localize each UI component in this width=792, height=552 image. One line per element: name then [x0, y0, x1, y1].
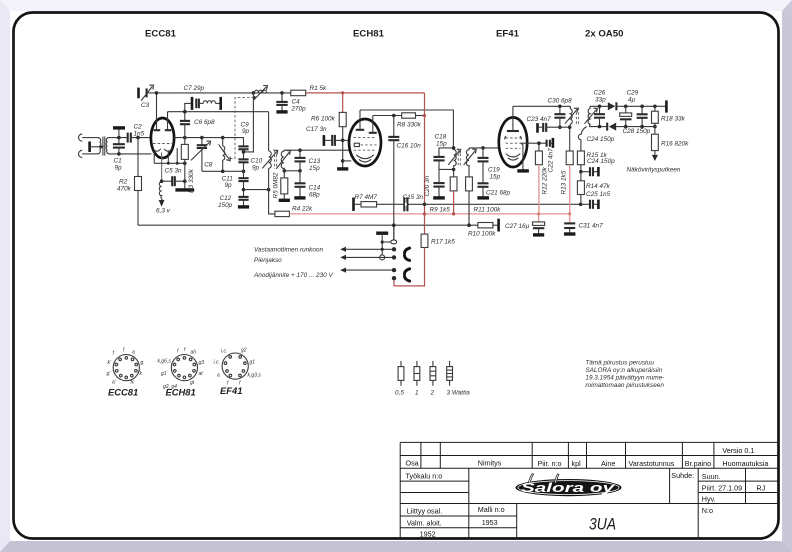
- svg-text:Piir. n:o: Piir. n:o: [538, 459, 562, 468]
- capacitor C11: [238, 177, 248, 179]
- svg-text:470k: 470k: [117, 186, 132, 193]
- oscillator anode line: [168, 111, 269, 113]
- svg-text:Br.paino: Br.paino: [685, 459, 711, 468]
- capacitor C14: [299, 171, 301, 184]
- svg-text:15p: 15p: [490, 174, 501, 181]
- svg-text:C13: C13: [309, 158, 321, 165]
- svg-text:Malli n:o: Malli n:o: [478, 505, 505, 514]
- ECH81 grids: [354, 136, 377, 138]
- svg-text:19.3.1954 päivättyyn nume-: 19.3.1954 päivättyyn nume-: [585, 375, 664, 382]
- svg-text:C18: C18: [435, 134, 447, 141]
- ground C20: [433, 196, 445, 199]
- ECH81 cathode wire: [343, 160, 352, 162]
- svg-text:R11 100k: R11 100k: [474, 206, 502, 213]
- svg-text:R17 1k5: R17 1k5: [431, 239, 455, 246]
- svg-text:R7 4M7: R7 4M7: [355, 194, 378, 201]
- svg-text:ECC81: ECC81: [145, 29, 177, 40]
- resistor R17: [421, 234, 428, 247]
- svg-text:at: at: [199, 371, 204, 377]
- wattage legend 3W: [447, 361, 471, 397]
- svg-text:C4: C4: [292, 99, 301, 106]
- resistor R13: [569, 127, 571, 151]
- svg-text:R9 1k5: R9 1k5: [430, 206, 451, 213]
- svg-text:C25 1n5: C25 1n5: [586, 191, 611, 198]
- frame top band: [0, 0, 792, 11]
- svg-text:R5 0M82: R5 0M82: [273, 172, 280, 198]
- antenna terminal top: [79, 134, 83, 141]
- svg-text:C15 3n: C15 3n: [403, 194, 424, 201]
- EF41 cathode lead: [521, 143, 523, 170]
- variable inductor L1 in rail: [254, 90, 266, 93]
- resistor R14: [580, 172, 582, 181]
- svg-text:2x OA50: 2x OA50: [585, 29, 623, 40]
- svg-text:g1: g1: [161, 371, 167, 377]
- wire C11-C12 junction to osc: [244, 189, 269, 191]
- node B+ in: [392, 276, 396, 280]
- diode D1 OA50: [608, 102, 615, 110]
- ground C27: [533, 233, 544, 236]
- svg-text:R18 33k: R18 33k: [661, 115, 686, 122]
- resistor R7: [352, 198, 355, 211]
- capacitor C12: [238, 196, 248, 198]
- chassis feed line: [346, 248, 395, 250]
- IF2 primary coil: [454, 148, 457, 167]
- IF3 core: [575, 108, 577, 127]
- svg-text:Huomautuksia: Huomautuksia: [722, 459, 768, 468]
- svg-text:9p: 9p: [115, 165, 123, 172]
- EF41 screen wire: [521, 142, 546, 144]
- capacitor C28: [641, 106, 643, 114]
- capacitor C26: [599, 106, 601, 114]
- wire C8 bottom: [202, 170, 244, 172]
- svg-text:Vastaanottimen runkoon: Vastaanottimen runkoon: [254, 247, 323, 254]
- ECC81 cathode 2: [164, 149, 171, 151]
- svg-text:3UA: 3UA: [589, 514, 616, 533]
- capacitor C16: [393, 116, 395, 137]
- node wire R5/C13: [284, 170, 300, 172]
- heater winding: [159, 182, 162, 202]
- svg-text:i.c.: i.c.: [221, 349, 227, 355]
- svg-text:C2: C2: [134, 124, 143, 131]
- capacitor C19: [482, 148, 484, 158]
- frame left band: [0, 0, 10, 552]
- ground ECH81 cathode: [337, 167, 348, 170]
- svg-text:C20 3n: C20 3n: [424, 175, 431, 196]
- capacitor C2: [127, 133, 129, 143]
- oscillator coil secondary: [281, 150, 284, 171]
- svg-text:270p: 270p: [291, 106, 307, 113]
- svg-text:C22 4n7: C22 4n7: [548, 148, 555, 173]
- wire secondary top to C2: [109, 137, 128, 139]
- svg-text:EF41: EF41: [220, 385, 242, 396]
- svg-text:9p: 9p: [225, 182, 233, 189]
- svg-text:C19: C19: [488, 167, 500, 174]
- connector prongs pair 2: [405, 269, 410, 274]
- svg-text:Valm. aloit.: Valm. aloit.: [407, 518, 442, 527]
- svg-text:C7 29p: C7 29p: [184, 85, 205, 92]
- anode voltage line: [346, 269, 395, 271]
- ECC81 bottom leads: [153, 152, 155, 164]
- svg-text:R2: R2: [119, 179, 128, 186]
- svg-text:ECH81: ECH81: [166, 387, 196, 398]
- svg-text:15p: 15p: [436, 141, 447, 148]
- svg-text:Pienjakso: Pienjakso: [254, 257, 282, 264]
- pinout ECC81: [113, 355, 139, 381]
- detector bottom line: [590, 124, 607, 127]
- capacitor C4: [281, 93, 283, 102]
- antenna transformer core: [102, 137, 104, 156]
- svg-text:gt: gt: [190, 380, 195, 386]
- ECH81 anode line to IF2: [360, 110, 453, 148]
- ground EF41 cathode: [517, 169, 529, 172]
- svg-text:kpl: kpl: [572, 459, 582, 468]
- red B+ vertical: [424, 93, 426, 234]
- svg-text:C3: C3: [141, 102, 150, 109]
- svg-text:C1: C1: [114, 158, 123, 165]
- svg-text:g2: g2: [241, 348, 247, 354]
- detector top line: [590, 105, 608, 107]
- svg-text:Salora oy: Salora oy: [521, 481, 616, 495]
- svg-text:a: a: [217, 373, 220, 379]
- resistor R16: [654, 127, 656, 135]
- svg-text:2: 2: [430, 390, 435, 397]
- IF2 core: [457, 149, 459, 168]
- variable capacitor C8: [201, 138, 203, 146]
- tube EF41: [499, 117, 527, 167]
- note text: [585, 360, 664, 390]
- svg-text:C23 4n7: C23 4n7: [527, 116, 552, 123]
- variable inductor L2: [222, 138, 224, 146]
- wattage legend 2W: [430, 361, 436, 397]
- capacitor C30: [559, 106, 561, 114]
- antenna transformer primary: [98, 138, 101, 154]
- svg-text:1952: 1952: [420, 529, 436, 538]
- ground C21: [477, 196, 489, 199]
- capacitor C23: [536, 123, 539, 133]
- svg-text:150p: 150p: [218, 202, 233, 209]
- LC trap C7: [185, 103, 191, 121]
- svg-text:SALORA oy:n alkuperäisiin: SALORA oy:n alkuperäisiin: [585, 367, 662, 374]
- svg-text:C26: C26: [594, 90, 606, 97]
- antenna terminal bottom: [79, 150, 83, 157]
- svg-text:N:o: N:o: [702, 506, 713, 515]
- svg-text:R16 820k: R16 820k: [661, 140, 689, 147]
- wire grid to stack: [174, 138, 244, 147]
- capacitor C22: [546, 140, 548, 147]
- ECC81 anode 1: [154, 129, 161, 131]
- wattage legend 0.5W: [395, 361, 404, 397]
- wire secondary bottom to tube: [109, 153, 152, 155]
- svg-text:R6 100k: R6 100k: [311, 116, 336, 123]
- capacitor C20: [438, 169, 440, 183]
- pienjakso line: [346, 256, 395, 258]
- resistor R10: [478, 223, 493, 228]
- ECC81 cathode 1: [153, 149, 160, 151]
- svg-text:C31 4n7: C31 4n7: [579, 222, 604, 229]
- svg-text:Nimitys: Nimitys: [478, 458, 502, 467]
- svg-text:6,3 v: 6,3 v: [156, 208, 171, 215]
- svg-text:Suun.: Suun.: [702, 472, 721, 481]
- svg-text:Aine: Aine: [601, 459, 615, 468]
- Salora oy logo: [516, 474, 622, 497]
- svg-text:33p: 33p: [595, 97, 606, 104]
- svg-text:C14: C14: [309, 185, 321, 192]
- svg-text:R12 220k: R12 220k: [541, 166, 548, 194]
- EF41 anode line: [513, 105, 570, 107]
- capacitor C29: [625, 106, 627, 113]
- svg-text:3 Wattia: 3 Wattia: [447, 390, 471, 397]
- svg-text:ah: ah: [191, 350, 197, 356]
- svg-text:Piirt. 27.1.09: Piirt. 27.1.09: [702, 483, 742, 492]
- EF41 grids: [505, 136, 506, 139]
- wattage legend 1W: [414, 361, 420, 397]
- resistor R6: [342, 93, 344, 113]
- svg-text:R1 5k: R1 5k: [310, 85, 327, 92]
- svg-text:C5 3n: C5 3n: [165, 167, 182, 174]
- diode D2 OA50: [606, 123, 608, 131]
- socket bushing: [391, 240, 397, 244]
- frame right band: [782, 0, 792, 552]
- svg-text:C30 6p8: C30 6p8: [548, 98, 573, 105]
- ground C14: [294, 196, 305, 199]
- svg-text:EF41: EF41: [496, 29, 520, 40]
- svg-text:Osa: Osa: [406, 458, 419, 467]
- ground C12: [238, 205, 249, 208]
- IF2 secondary coil: [466, 148, 469, 167]
- svg-text:roimattomaan piirustukseen: roimattomaan piirustukseen: [585, 382, 664, 389]
- svg-text:R13 1k5: R13 1k5: [560, 170, 567, 194]
- resistor R4: [269, 190, 275, 214]
- ground R3: [175, 188, 194, 191]
- svg-text:15p: 15p: [309, 165, 320, 172]
- trimmer C3: [137, 88, 140, 99]
- svg-text:R14 47k: R14 47k: [586, 183, 611, 190]
- capacitor C24: [580, 165, 582, 172]
- svg-text:Tämä piirustus perustuu: Tämä piirustus perustuu: [585, 360, 654, 367]
- svg-text:C24 150p: C24 150p: [587, 136, 615, 143]
- ground C31: [564, 232, 575, 235]
- svg-text:C29: C29: [627, 90, 639, 97]
- antenna transformer secondary: [106, 138, 109, 154]
- resistor R15: [577, 151, 584, 165]
- wire antenna bottom: [82, 153, 98, 155]
- capacitor C6: [180, 120, 190, 122]
- resistor R8: [373, 115, 402, 117]
- svg-text:RJ: RJ: [756, 483, 765, 492]
- svg-text:fc: fc: [131, 380, 135, 386]
- connector prongs pair 1: [405, 248, 410, 253]
- svg-text:Versio 0.1: Versio 0.1: [722, 446, 754, 455]
- EF41 cathode arcs: [506, 154, 520, 157]
- capacitor C5: [162, 180, 173, 182]
- resistor R11: [468, 165, 470, 177]
- svg-text:g1: g1: [250, 360, 256, 366]
- resistor R9: [453, 169, 455, 177]
- svg-text:C17 3n: C17 3n: [306, 126, 327, 133]
- svg-text:9p: 9p: [242, 128, 250, 135]
- svg-text:C27 16µ: C27 16µ: [505, 223, 530, 230]
- ECC81 grid dashes: [153, 143, 172, 145]
- ECH81 anode bars: [356, 129, 364, 131]
- title block grid: [400, 442, 778, 539]
- ground R5: [279, 199, 290, 202]
- svg-text:C16 10n: C16 10n: [397, 143, 422, 150]
- small loop to R15: [578, 127, 586, 151]
- svg-text:C8: C8: [204, 161, 213, 168]
- resistor R1: [291, 90, 306, 96]
- svg-text:k,g6,s: k,g6,s: [158, 359, 172, 365]
- svg-text:g3: g3: [199, 360, 205, 366]
- gang dashed link: [230, 97, 254, 158]
- svg-text:ECC81: ECC81: [108, 387, 138, 398]
- svg-text:R4 22k: R4 22k: [292, 206, 313, 213]
- capacitor C1: [118, 128, 120, 144]
- capacitor C9: [238, 145, 248, 147]
- svg-text:R8 330k: R8 330k: [397, 122, 422, 129]
- svg-text:C24 150p: C24 150p: [587, 158, 615, 165]
- ECH81 cathode arcs: [356, 155, 374, 159]
- IF3 secondary coil: [588, 106, 590, 125]
- wire C2 to grid: [131, 137, 152, 139]
- antenna tuning arrow: [90, 146, 101, 148]
- EF41 grid wire: [469, 147, 500, 149]
- svg-text:C10: C10: [251, 158, 263, 165]
- capacitor C13: [299, 150, 301, 158]
- pinout ECH81: [171, 355, 197, 381]
- ground connector block: [376, 231, 388, 234]
- chassis rail: [138, 224, 478, 226]
- tube ECC81: [151, 118, 174, 158]
- ECC81 cathode bus: [154, 162, 185, 164]
- resistor R2: [137, 138, 139, 177]
- svg-text:R3 330k: R3 330k: [188, 168, 195, 193]
- capacitor C21: [478, 182, 489, 184]
- AVC line: [377, 203, 581, 205]
- oscillator core: [274, 150, 276, 169]
- svg-text:1953: 1953: [482, 518, 498, 527]
- svg-text:k,g3,s: k,g3,s: [248, 373, 262, 379]
- svg-text:C28 150p: C28 150p: [623, 128, 651, 135]
- svg-text:a: a: [132, 350, 135, 356]
- capacitor C17: [323, 135, 326, 146]
- svg-text:4µ: 4µ: [628, 97, 636, 104]
- frame bottom band: [0, 541, 792, 552]
- capacitor C15: [403, 197, 405, 211]
- IF3 primary coil: [570, 106, 572, 127]
- red B+ rail top: [306, 92, 425, 94]
- svg-text:Varastotunnus: Varastotunnus: [629, 459, 675, 468]
- svg-text:R10 100k: R10 100k: [468, 231, 496, 238]
- wire antenna top: [82, 137, 98, 139]
- svg-text:ECH81: ECH81: [353, 29, 385, 40]
- capacitor C31: [564, 222, 575, 224]
- tube ECH81: [349, 119, 381, 166]
- svg-text:Työkalu n:o: Työkalu n:o: [406, 472, 443, 481]
- capacitor C27: [538, 214, 540, 222]
- svg-text:9p: 9p: [252, 165, 260, 172]
- top rail: [157, 92, 292, 94]
- svg-text:Näköviritysputkeen: Näköviritysputkeen: [627, 167, 681, 174]
- resistor R5: [281, 178, 288, 194]
- svg-text:Liittyy osal.: Liittyy osal.: [407, 507, 443, 516]
- pinout EF41: [222, 353, 248, 379]
- svg-text:68p: 68p: [309, 192, 320, 199]
- B+ distribution rail: [289, 213, 569, 215]
- oscillator coil primary: [268, 112, 270, 151]
- osc secondary top wire to ECH81: [284, 149, 349, 151]
- svg-text:C21 68p: C21 68p: [486, 189, 511, 196]
- svg-text:C6 6p8: C6 6p8: [194, 119, 215, 126]
- wire C9-C10 junction to rail: [243, 149, 245, 159]
- svg-text:i.c.: i.c.: [214, 360, 220, 366]
- antenna trimmer bar: [88, 142, 91, 153]
- resistor R18: [652, 111, 659, 123]
- svg-text:Hyv.: Hyv.: [702, 495, 716, 504]
- svg-text:1: 1: [415, 390, 419, 397]
- capacitor C25: [581, 203, 590, 205]
- svg-text:g: g: [141, 360, 144, 366]
- svg-text:Anodijännite + 170 ... 230 V: Anodijännite + 170 ... 230 V: [253, 272, 333, 279]
- wire to socket: [381, 240, 384, 243]
- capacitor C10: [238, 158, 248, 160]
- resistor R12: [538, 143, 540, 151]
- ECC81 anode 2: [165, 129, 172, 131]
- capacitor C18: [439, 148, 453, 157]
- resistor R3: [183, 136, 187, 140]
- svg-text:Suhde:: Suhde:: [671, 471, 694, 480]
- EF41 anode: [507, 130, 519, 132]
- svg-text:0,5: 0,5: [395, 390, 404, 397]
